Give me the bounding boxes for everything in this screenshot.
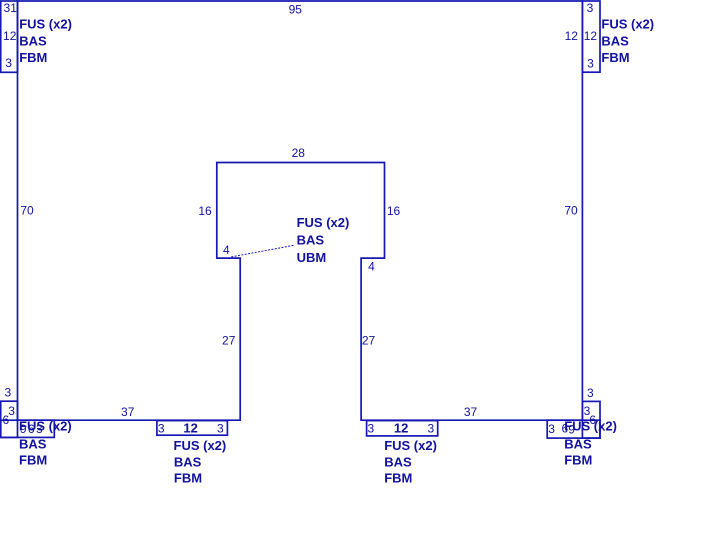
svg-text:FBM: FBM bbox=[174, 471, 202, 486]
svg-text:FUS (x2): FUS (x2) bbox=[601, 16, 654, 31]
svg-text:FUS (x2): FUS (x2) bbox=[297, 215, 350, 230]
fitting box bottom mid-right bbox=[367, 421, 438, 436]
svg-text:3: 3 bbox=[428, 422, 435, 436]
svg-text:FBM: FBM bbox=[384, 471, 412, 486]
corner detail box bottom-right vertical bbox=[582, 401, 600, 438]
svg-text:4: 4 bbox=[368, 259, 375, 273]
svg-text:70: 70 bbox=[564, 203, 578, 217]
svg-text:12: 12 bbox=[394, 421, 408, 436]
svg-text:3: 3 bbox=[158, 422, 165, 436]
svg-text:31: 31 bbox=[4, 1, 18, 15]
svg-text:BAS: BAS bbox=[174, 454, 202, 469]
svg-text:16: 16 bbox=[387, 204, 401, 218]
svg-text:3: 3 bbox=[587, 56, 594, 70]
corner detail box bottom-left horizontal bbox=[1, 420, 55, 437]
svg-text:BAS: BAS bbox=[384, 454, 412, 469]
svg-text:27: 27 bbox=[222, 333, 236, 347]
svg-text:12: 12 bbox=[584, 29, 598, 43]
svg-text:FUS (x2): FUS (x2) bbox=[174, 438, 227, 453]
svg-text:70: 70 bbox=[20, 203, 34, 217]
svg-text:FBM: FBM bbox=[19, 50, 47, 65]
svg-text:UBM: UBM bbox=[297, 250, 327, 265]
svg-text:12: 12 bbox=[183, 421, 197, 436]
svg-text:BAS: BAS bbox=[19, 437, 47, 452]
svg-text:95: 95 bbox=[289, 2, 303, 16]
svg-text:3: 3 bbox=[4, 386, 11, 400]
svg-text:BAS: BAS bbox=[297, 233, 325, 248]
svg-text:FUS (x2): FUS (x2) bbox=[19, 419, 72, 434]
panel outline bbox=[18, 1, 583, 420]
svg-text:37: 37 bbox=[464, 405, 478, 419]
svg-text:FBM: FBM bbox=[601, 50, 629, 65]
corner detail box top-right bbox=[582, 1, 600, 72]
svg-text:FBM: FBM bbox=[19, 452, 47, 467]
svg-text:BAS: BAS bbox=[19, 33, 47, 48]
svg-text:3: 3 bbox=[587, 1, 594, 15]
svg-text:3: 3 bbox=[587, 386, 594, 400]
corner detail box bottom-right horizontal bbox=[547, 420, 600, 438]
svg-text:28: 28 bbox=[292, 146, 306, 160]
svg-text:FUS (x2): FUS (x2) bbox=[384, 438, 437, 453]
svg-text:BAS: BAS bbox=[601, 33, 629, 48]
svg-text:3: 3 bbox=[368, 422, 375, 436]
svg-text:12: 12 bbox=[565, 29, 579, 43]
fitting box bottom mid-left bbox=[157, 421, 228, 436]
svg-text:12: 12 bbox=[3, 29, 17, 43]
corner detail box bottom-left vertical bbox=[1, 401, 18, 437]
svg-text:3: 3 bbox=[217, 422, 224, 436]
svg-text:FUS (x2): FUS (x2) bbox=[19, 16, 72, 31]
svg-text:3: 3 bbox=[8, 404, 15, 418]
leader dotted line to cutout corner bbox=[232, 245, 294, 256]
svg-text:FBM: FBM bbox=[564, 452, 592, 467]
svg-text:6: 6 bbox=[2, 413, 9, 427]
svg-text:FUS (x2): FUS (x2) bbox=[564, 419, 617, 434]
svg-text:16: 16 bbox=[198, 204, 212, 218]
svg-text:27: 27 bbox=[362, 333, 376, 347]
svg-text:3: 3 bbox=[5, 56, 12, 70]
svg-text:BAS: BAS bbox=[564, 437, 592, 452]
svg-text:3: 3 bbox=[548, 422, 555, 436]
svg-text:37: 37 bbox=[121, 405, 135, 419]
corner detail box top-left bbox=[1, 1, 18, 72]
svg-text:4: 4 bbox=[223, 243, 230, 257]
